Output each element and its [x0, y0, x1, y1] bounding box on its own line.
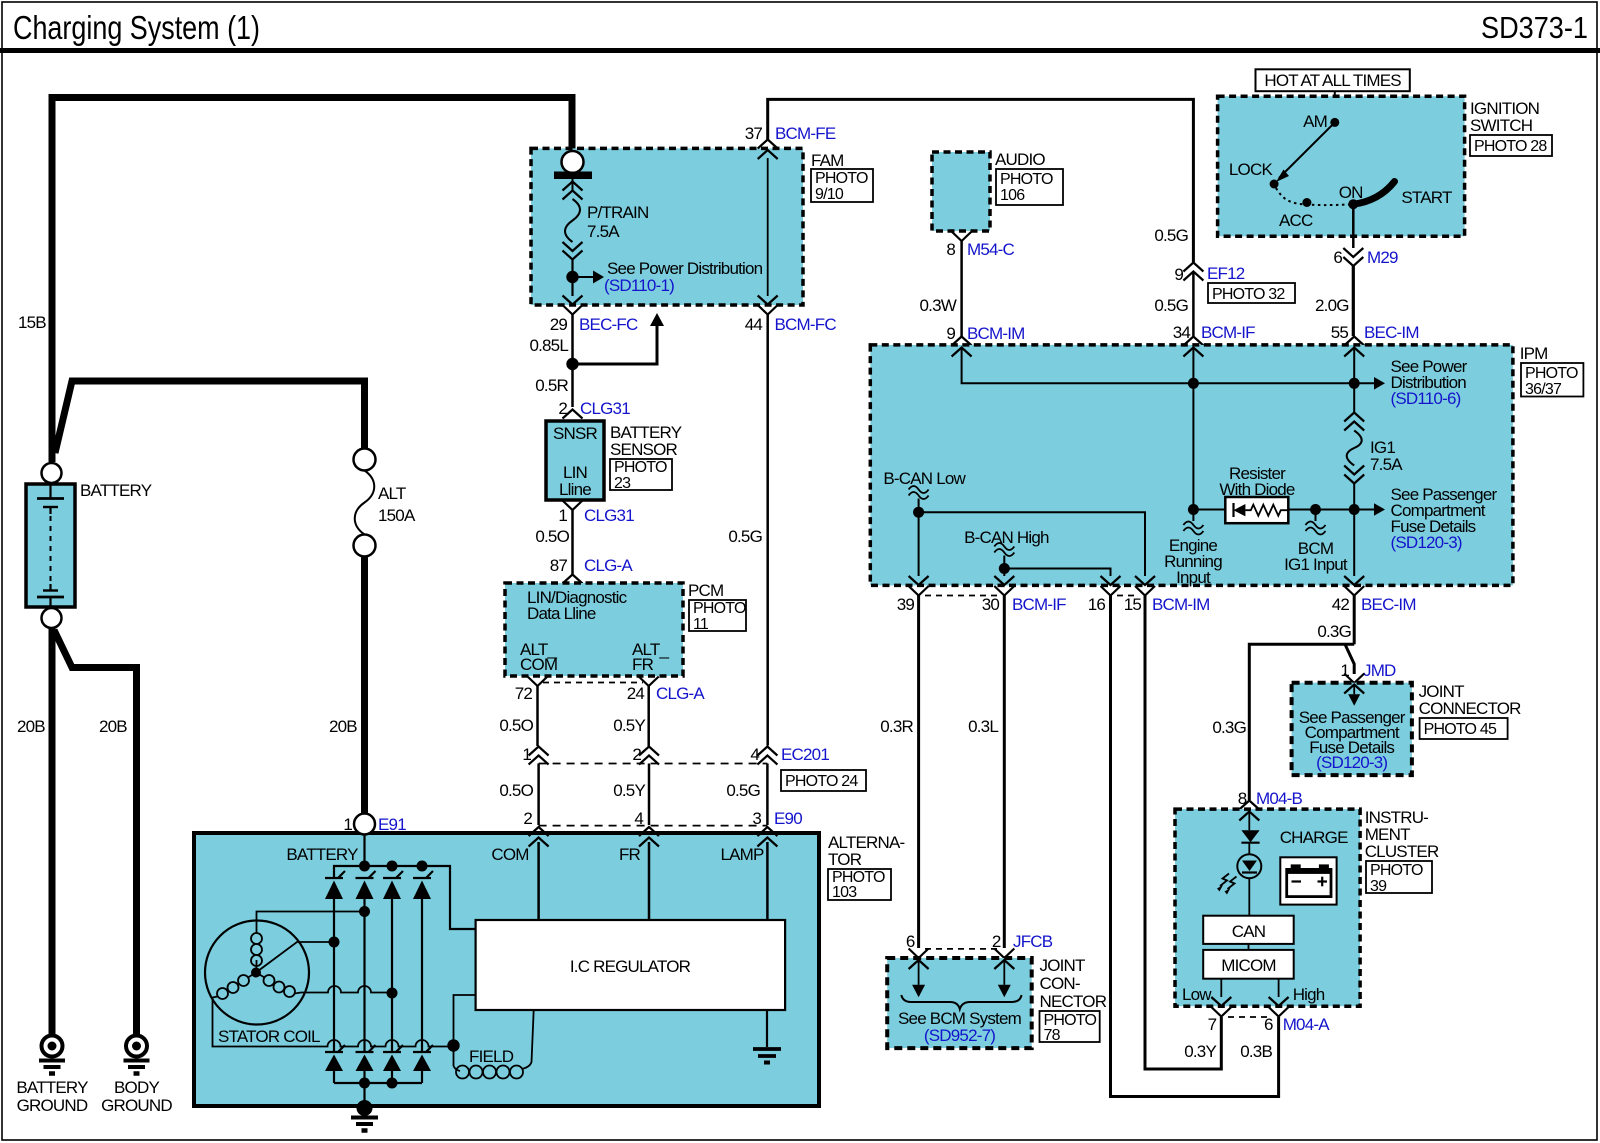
svg-text:JOINT: JOINT [1040, 956, 1086, 975]
svg-text:PHOTO 28: PHOTO 28 [1474, 138, 1547, 155]
svg-text:34: 34 [1173, 323, 1191, 342]
svg-text:PHOTO: PHOTO [815, 170, 868, 187]
svg-text:CON-: CON- [1040, 974, 1080, 993]
field circuit [454, 995, 476, 1066]
svg-text:0.3R: 0.3R [880, 717, 913, 736]
svg-text:SENSOR: SENSOR [610, 440, 678, 459]
svg-text:6: 6 [1264, 1015, 1273, 1034]
svg-text:M04-B: M04-B [1256, 789, 1303, 808]
svg-text:7: 7 [1208, 1015, 1217, 1034]
wire 42 BEC-IM 0.3G [1353, 596, 1356, 645]
battery sensor SNSR [546, 421, 604, 500]
svg-text:1: 1 [558, 506, 567, 525]
wire 0.3W [960, 241, 963, 337]
svg-text:NECTOR: NECTOR [1040, 992, 1107, 1011]
node ON / blade START [1348, 199, 1358, 209]
svg-text:(SD120-3): (SD120-3) [1391, 533, 1462, 552]
junction dot + branch arrow [566, 358, 578, 370]
svg-text:JFCB: JFCB [1013, 932, 1053, 951]
svg-text:PHOTO: PHOTO [614, 459, 667, 476]
svg-text:M04-A: M04-A [1283, 1015, 1331, 1034]
dotted detent arc [1276, 188, 1351, 205]
node LOCK [1270, 180, 1279, 189]
diode D7 bottom [383, 1045, 403, 1083]
svg-text:0.5Y: 0.5Y [613, 716, 645, 735]
wire 0.5O [571, 510, 574, 574]
diode cluster input [1248, 812, 1250, 831]
svg-text:0.5O: 0.5O [535, 527, 569, 546]
wire fuse to alternator E91 [361, 557, 368, 815]
svg-text:0.3B: 0.3B [1240, 1042, 1272, 1061]
wire M29 2.0G [1352, 204, 1355, 248]
wire BCM-FC 0.5G [766, 315, 769, 746]
svg-text:PHOTO 45: PHOTO 45 [1424, 721, 1497, 738]
wire body ground branch [54, 630, 137, 1036]
node AM [1330, 118, 1339, 127]
wire pin9 into bus [962, 348, 1355, 384]
svg-text:LAMP: LAMP [720, 845, 764, 864]
svg-text:0.5G: 0.5G [728, 527, 762, 546]
svg-text:P/TRAIN: P/TRAIN [587, 203, 648, 222]
svg-text:CLG-A: CLG-A [584, 556, 633, 575]
svg-text:16: 16 [1088, 595, 1106, 614]
svg-text:PHOTO 24: PHOTO 24 [785, 773, 858, 790]
wire 0.85L [571, 315, 574, 408]
svg-text:(SD952-7): (SD952-7) [924, 1026, 995, 1045]
svg-text:BCM-FE: BCM-FE [775, 124, 836, 143]
inner chevrons over boxes [952, 348, 972, 357]
junction dot [566, 271, 578, 283]
svg-text:20B: 20B [17, 717, 45, 736]
svg-text:PCM: PCM [688, 581, 723, 600]
svg-text:With Diode: With Diode [1219, 480, 1294, 499]
arrow see power distribution [573, 276, 594, 278]
svg-text:9: 9 [946, 324, 955, 343]
svg-text:AM: AM [1303, 112, 1327, 131]
svg-text:SNSR: SNSR [553, 424, 598, 443]
svg-text:BATTERY: BATTERY [286, 845, 358, 864]
svg-text:BEC-IM: BEC-IM [1364, 323, 1419, 342]
svg-text:E91: E91 [378, 815, 406, 834]
svg-text:78: 78 [1044, 1027, 1061, 1044]
svg-text:87: 87 [550, 556, 568, 575]
ground regulator [766, 1010, 768, 1047]
fuse ALT 150A [354, 449, 376, 471]
battery telltale icon [1280, 857, 1336, 904]
switch blade AM-LOCK [1279, 122, 1335, 178]
wire to case ground [363, 1083, 365, 1104]
node ACC [1302, 198, 1311, 207]
svg-text:(SD110-6): (SD110-6) [1391, 389, 1461, 408]
pin 37 BCM-FE [758, 140, 778, 149]
svg-text:23: 23 [614, 475, 631, 492]
svg-text:0.5R: 0.5R [535, 376, 568, 395]
svg-text:Charging System (1): Charging System (1) [13, 9, 260, 46]
svg-text:AUDIO: AUDIO [995, 150, 1045, 169]
svg-text:42: 42 [1332, 595, 1350, 614]
svg-text:E90: E90 [774, 809, 802, 828]
wire 0.3L [1003, 596, 1006, 949]
pin 72 [528, 677, 548, 687]
svg-text:IG1 Input: IG1 Input [1284, 555, 1348, 574]
pin 8 M54-C [952, 232, 972, 242]
wire battery feed top [52, 98, 572, 463]
svg-text:EF12: EF12 [1207, 264, 1245, 283]
svg-text:11: 11 [693, 616, 709, 633]
svg-text:Data Lline: Data Lline [527, 604, 596, 623]
svg-text:39: 39 [1370, 878, 1387, 895]
svg-text:SD373-1: SD373-1 [1481, 10, 1588, 45]
diode D6 bottom [356, 1045, 376, 1083]
svg-text:0.5O: 0.5O [499, 781, 533, 800]
svg-text:PHOTO: PHOTO [1000, 171, 1053, 188]
svg-text:20B: 20B [99, 717, 127, 736]
phase D coil (lower left) + frame wire [238, 975, 249, 986]
svg-text:8: 8 [946, 240, 955, 259]
node battery positive connector [42, 463, 62, 483]
svg-text:1: 1 [522, 745, 531, 764]
svg-text:BATTERY: BATTERY [16, 1078, 88, 1097]
pin 1 CLG31 [563, 501, 583, 511]
battery BATTERY [26, 484, 75, 607]
junction dot [1188, 378, 1199, 389]
junction dot + arrow see passenger [1349, 504, 1360, 515]
svg-text:ACC: ACC [1279, 211, 1313, 230]
engine running input [1192, 383, 1194, 521]
pin 24 CLG-A [639, 677, 659, 687]
svg-text:6: 6 [1333, 248, 1342, 267]
wire to pin 42 [1353, 510, 1355, 577]
svg-text:15B: 15B [18, 313, 46, 332]
wire top feed to EF12 [768, 99, 1194, 262]
svg-text:PHOTO: PHOTO [1370, 862, 1423, 879]
svg-text:0.3G: 0.3G [1212, 718, 1246, 737]
svg-text:150A: 150A [378, 506, 416, 525]
wire pin55 down / fuse IG1 7.5A [1353, 348, 1355, 413]
svg-text:4: 4 [750, 745, 759, 764]
svg-text:(SD110-1): (SD110-1) [604, 276, 674, 295]
svg-text:CHARGE: CHARGE [1280, 828, 1348, 847]
svg-text:GROUND: GROUND [17, 1096, 88, 1115]
svg-text:I.C REGULATOR: I.C REGULATOR [570, 957, 691, 976]
connector E90 pins at alternator edge [529, 827, 549, 836]
diode D4 top [413, 871, 433, 1052]
svg-text:PHOTO 32: PHOTO 32 [1212, 286, 1285, 303]
svg-text:START: START [1401, 188, 1452, 207]
svg-text:M29: M29 [1367, 248, 1398, 267]
svg-text:CONNECTOR: CONNECTOR [1419, 699, 1522, 718]
svg-text:FIELD: FIELD [469, 1047, 514, 1066]
diode D2 top [356, 871, 376, 1052]
svg-text:BEC-IM: BEC-IM [1361, 595, 1416, 614]
wires Low / High [1220, 979, 1222, 997]
svg-text:FR: FR [619, 845, 641, 864]
wire 0.5O [536, 686, 539, 746]
svg-text:0.3L: 0.3L [968, 717, 998, 736]
pin 44 BCM-FC [758, 296, 778, 305]
svg-text:EC201: EC201 [781, 745, 829, 764]
svg-text:B-CAN Low: B-CAN Low [883, 469, 966, 488]
svg-text:STATOR COIL: STATOR COIL [218, 1027, 320, 1046]
svg-text:0.5G: 0.5G [1154, 226, 1188, 245]
svg-text:Low: Low [1182, 985, 1212, 1004]
wire 0.3R [917, 596, 920, 949]
svg-text:CLG31: CLG31 [580, 399, 630, 418]
svg-text:CLG-A: CLG-A [656, 684, 705, 703]
connector EC201 row [529, 747, 549, 756]
svg-text:9: 9 [1174, 265, 1183, 284]
svg-text:37: 37 [745, 124, 763, 143]
svg-text:High: High [1293, 985, 1325, 1004]
svg-text:COM: COM [520, 655, 557, 674]
svg-text:FR: FR [632, 655, 654, 674]
joint connector JMD box [1292, 683, 1412, 775]
svg-text:103: 103 [832, 884, 857, 901]
svg-text:24: 24 [627, 684, 645, 703]
svg-text:7.5A: 7.5A [1370, 455, 1403, 474]
phase B tap (diagonal) [256, 942, 334, 973]
svg-text:2: 2 [523, 809, 532, 828]
CAN box [1203, 916, 1294, 944]
phase C coil (lower right) [264, 975, 275, 986]
svg-text:55: 55 [1331, 323, 1349, 342]
wire 0.5Y [647, 686, 650, 746]
pin 29 BEC-FC [563, 296, 583, 305]
svg-text:BCM-FC: BCM-FC [775, 315, 837, 334]
svg-text:30: 30 [982, 595, 1000, 614]
svg-text:15: 15 [1124, 595, 1142, 614]
svg-text:Lline: Lline [559, 480, 591, 499]
I.C REGULATOR [476, 920, 785, 1010]
svg-text:PHOTO: PHOTO [693, 600, 746, 617]
svg-text:0.3W: 0.3W [920, 296, 957, 315]
svg-text:BATTERY: BATTERY [80, 481, 152, 500]
phase A coil (top) [251, 955, 262, 966]
BCM IG1 input [1310, 504, 1321, 515]
wires to alternator [537, 764, 540, 826]
junction dot + arrow see power distribution [1349, 378, 1360, 389]
svg-text:M54-C: M54-C [967, 240, 1015, 259]
svg-text:0.85L: 0.85L [529, 336, 568, 355]
svg-text:0.3Y: 0.3Y [1184, 1042, 1216, 1061]
bridge top rail [334, 866, 476, 929]
diode D5 bottom [325, 1045, 345, 1083]
LED emission arrows [1228, 877, 1237, 890]
wire ALT feed [55, 381, 365, 453]
svg-text:ON: ON [1339, 183, 1363, 202]
wire E91 to rail [363, 834, 365, 866]
svg-text:MICOM: MICOM [1221, 956, 1276, 975]
diode D3 top [383, 871, 403, 1052]
svg-text:BCM-IM: BCM-IM [1152, 595, 1210, 614]
svg-text:BCM-IF: BCM-IF [1012, 595, 1066, 614]
node battery negative connector [42, 608, 62, 628]
svg-text:39: 39 [897, 595, 915, 614]
svg-text:36/37: 36/37 [1525, 381, 1562, 398]
svg-text:106: 106 [1000, 187, 1025, 204]
svg-text:SWITCH: SWITCH [1470, 116, 1532, 135]
svg-text:0.5O: 0.5O [499, 716, 533, 735]
svg-text:72: 72 [515, 684, 533, 703]
svg-text:7.5A: 7.5A [587, 222, 620, 241]
svg-text:6: 6 [906, 932, 915, 951]
svg-text:BCM-IM: BCM-IM [967, 324, 1025, 343]
svg-text:0.5G: 0.5G [1154, 296, 1188, 315]
svg-text:LOCK: LOCK [1229, 160, 1274, 179]
fuse P/TRAIN 7.5A [572, 179, 574, 190]
svg-text:2.0G: 2.0G [1315, 296, 1349, 315]
svg-text:TOR: TOR [828, 850, 862, 869]
svg-text:BODY: BODY [114, 1078, 159, 1097]
svg-text:CLG31: CLG31 [584, 506, 634, 525]
svg-text:(SD120-3): (SD120-3) [1316, 753, 1387, 772]
LED charge lamp [1237, 854, 1261, 878]
svg-text:20B: 20B [329, 717, 357, 736]
svg-text:B-CAN High: B-CAN High [964, 528, 1049, 547]
diode D8 bottom [413, 1045, 433, 1083]
svg-text:0.5G: 0.5G [726, 781, 760, 800]
svg-text:29: 29 [550, 315, 568, 334]
svg-text:2: 2 [632, 745, 641, 764]
MICOM box [1203, 950, 1294, 979]
svg-text:BEC-FC: BEC-FC [579, 315, 638, 334]
diode D1 top [325, 871, 345, 1052]
PCM box [505, 583, 683, 676]
svg-text:GROUND: GROUND [101, 1096, 172, 1115]
svg-text:44: 44 [745, 315, 763, 334]
wire 0.5G to BCM-IF [1192, 272, 1195, 337]
wire pin16 to cluster pin6 [1111, 596, 1279, 1097]
connector EF12 [1183, 263, 1203, 272]
svg-text:ALT: ALT [378, 484, 406, 503]
svg-text:0.5Y: 0.5Y [613, 781, 645, 800]
svg-text:BCM-IF: BCM-IF [1201, 323, 1255, 342]
ground body ground [126, 1036, 147, 1057]
ground alternator case [357, 1100, 373, 1116]
ground battery ground [42, 1036, 63, 1057]
svg-text:PHOTO: PHOTO [1525, 365, 1578, 382]
wire battery ground drop [49, 628, 56, 1036]
bridge bottom rail [334, 1082, 422, 1084]
stator coil [205, 921, 309, 1025]
svg-text:1: 1 [343, 815, 352, 834]
svg-text:0.3G: 0.3G [1317, 622, 1351, 641]
svg-text:Input: Input [1176, 568, 1211, 587]
svg-text:9/10: 9/10 [815, 186, 844, 203]
wire pin15 to cluster pin7 [1145, 596, 1221, 1070]
svg-text:IPM: IPM [1520, 344, 1548, 363]
svg-text:CLUSTER: CLUSTER [1365, 842, 1439, 861]
svg-text:CAN: CAN [1232, 922, 1266, 941]
fusible link terminal [562, 151, 584, 173]
svg-text:JMD: JMD [1363, 661, 1396, 680]
svg-text:HOT AT ALL TIMES: HOT AT ALL TIMES [1264, 71, 1401, 90]
resistor with diode [1193, 509, 1225, 511]
wires COM FR LAMP into regulator [537, 842, 540, 920]
svg-text:FAM: FAM [811, 151, 844, 170]
svg-text:COM: COM [491, 845, 528, 864]
